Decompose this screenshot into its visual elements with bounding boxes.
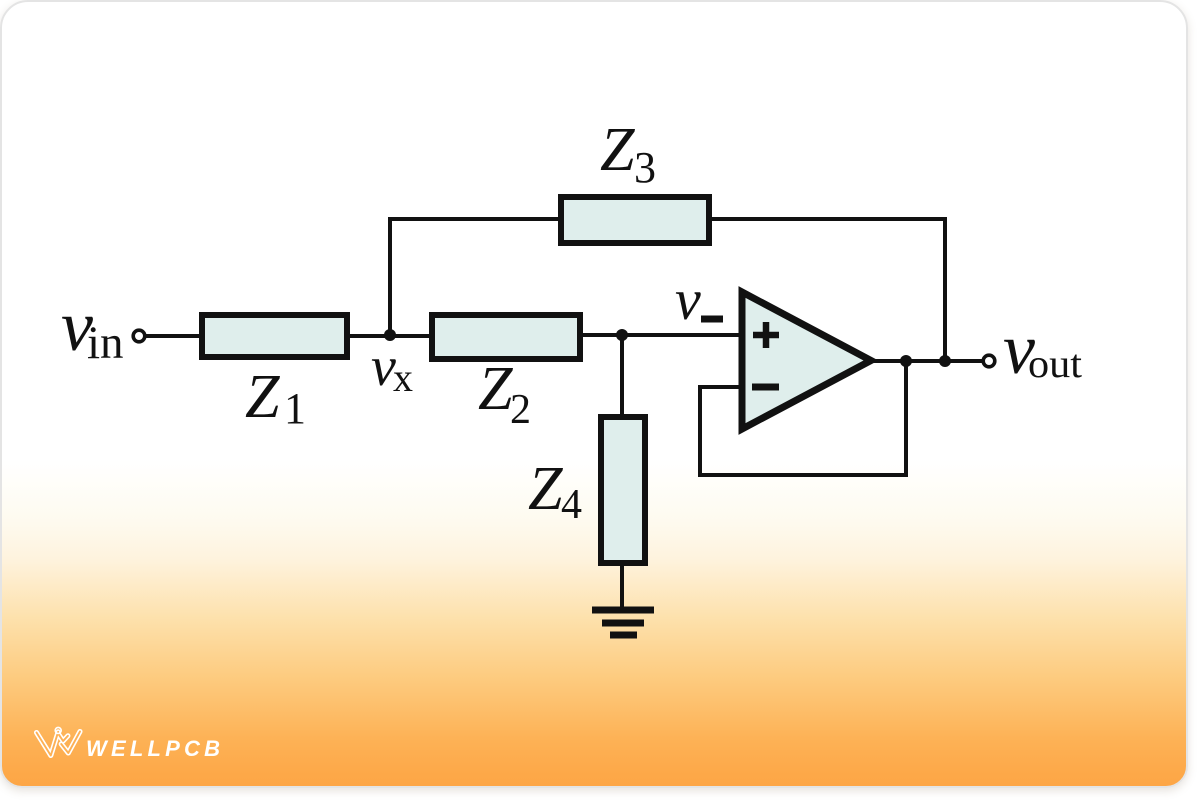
- node Z2 Z4 junction: [616, 329, 628, 341]
- node vx junction: [384, 329, 396, 341]
- svg-text:Z: Z: [478, 355, 513, 423]
- resistor Z1: [202, 315, 347, 357]
- svg-text:v: v: [675, 267, 701, 332]
- svg-text:Z: Z: [245, 363, 280, 431]
- svg-text:WELLPCB: WELLPCB: [86, 736, 224, 761]
- op-amp minus input: [752, 384, 779, 391]
- svg-text:Z: Z: [600, 116, 635, 184]
- wire Z1 to Z2: [347, 334, 432, 338]
- wire Z2 to op-amp: [580, 333, 744, 337]
- svg-text:x: x: [393, 355, 413, 400]
- svg-text:1: 1: [284, 384, 306, 433]
- wire vx up: [388, 217, 392, 335]
- ground: [592, 610, 654, 635]
- wire Z4 to ground: [620, 563, 624, 610]
- feedback wire minus input to output: [700, 361, 906, 475]
- svg-text:Z: Z: [528, 455, 563, 523]
- wire top left to Z3: [388, 217, 560, 221]
- svg-text:in: in: [87, 317, 124, 369]
- svg-text:2: 2: [510, 387, 531, 433]
- wire vin to Z1: [146, 334, 202, 338]
- resistor Z3: [561, 197, 709, 243]
- svg-text:4: 4: [561, 482, 582, 528]
- svg-text:out: out: [1028, 341, 1082, 386]
- node vout terminal: [983, 355, 995, 367]
- op-amp plus input: [753, 322, 779, 348]
- wire down to Z4: [620, 335, 624, 417]
- op-amp U1: [742, 292, 871, 429]
- node feedback junction: [900, 355, 912, 367]
- logo W mark: [37, 727, 81, 755]
- node vin terminal: [133, 330, 145, 342]
- resistor Z2: [432, 315, 580, 359]
- wire right vertical down to output: [943, 217, 947, 362]
- impedance Z4: [601, 417, 645, 563]
- output wire: [869, 359, 982, 363]
- wire Z3 to right vertical: [709, 217, 947, 221]
- svg-text:3: 3: [634, 143, 656, 192]
- node Z3 junction: [939, 355, 951, 367]
